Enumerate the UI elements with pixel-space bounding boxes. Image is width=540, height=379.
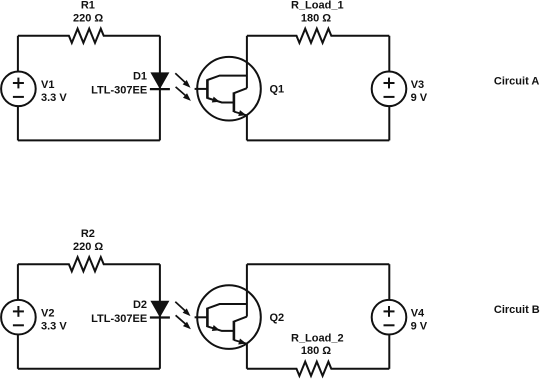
svg-text:180 Ω: 180 Ω: [301, 13, 331, 25]
svg-text:R1: R1: [81, 0, 95, 12]
svg-text:9 V: 9 V: [411, 321, 428, 333]
svg-text:D2: D2: [133, 299, 147, 311]
svg-text:V4: V4: [411, 307, 425, 319]
svg-text:V3: V3: [411, 79, 424, 91]
svg-text:180 Ω: 180 Ω: [301, 345, 331, 357]
svg-text:LTL-307EE: LTL-307EE: [91, 85, 147, 97]
svg-text:R_Load_2: R_Load_2: [291, 332, 344, 344]
svg-text:Q1: Q1: [270, 84, 285, 96]
svg-text:Circuit B: Circuit B: [494, 304, 540, 316]
svg-text:V1: V1: [41, 79, 54, 91]
svg-text:Q2: Q2: [270, 312, 285, 324]
svg-text:R2: R2: [81, 228, 95, 240]
svg-text:LTL-307EE: LTL-307EE: [91, 313, 147, 325]
svg-text:3.3 V: 3.3 V: [41, 321, 67, 333]
svg-text:9 V: 9 V: [411, 92, 428, 104]
svg-text:220 Ω: 220 Ω: [73, 241, 103, 253]
svg-text:R_Load_1: R_Load_1: [291, 0, 344, 12]
svg-text:220 Ω: 220 Ω: [73, 13, 103, 25]
svg-text:3.3 V: 3.3 V: [41, 92, 67, 104]
svg-text:Circuit A: Circuit A: [494, 76, 539, 88]
svg-text:D1: D1: [133, 71, 147, 83]
svg-text:V2: V2: [41, 307, 54, 319]
